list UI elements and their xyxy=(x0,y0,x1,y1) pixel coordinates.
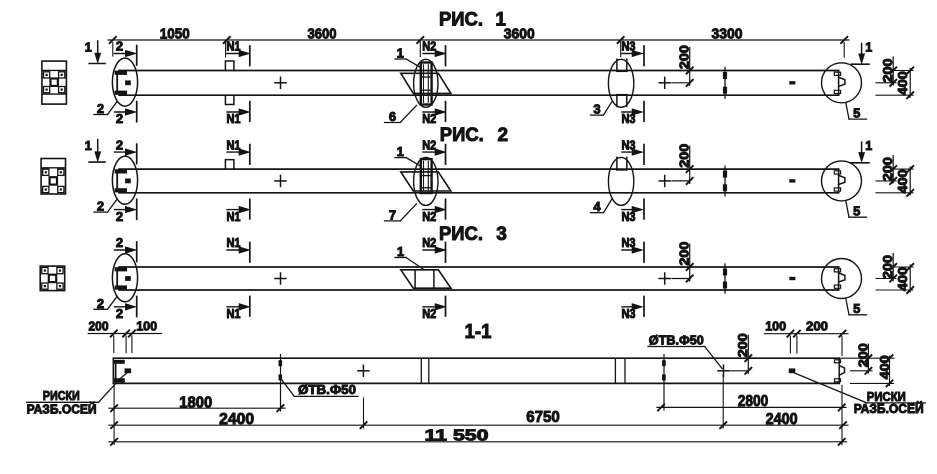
svg-text:2: 2 xyxy=(116,137,123,152)
svg-text:N2: N2 xyxy=(422,112,436,126)
svg-text:200: 200 xyxy=(676,144,691,168)
svg-text:1: 1 xyxy=(85,41,92,55)
svg-text:3300: 3300 xyxy=(712,26,743,42)
svg-text:2400: 2400 xyxy=(219,411,254,428)
svg-text:1: 1 xyxy=(865,41,872,55)
svg-text:2: 2 xyxy=(498,125,509,146)
svg-text:2: 2 xyxy=(97,199,104,214)
svg-text:4: 4 xyxy=(593,199,601,214)
svg-text:2: 2 xyxy=(116,111,123,126)
svg-text:5: 5 xyxy=(853,105,860,120)
svg-text:N3: N3 xyxy=(622,307,636,321)
svg-text:3: 3 xyxy=(593,102,600,117)
svg-text:400: 400 xyxy=(895,169,910,193)
svg-text:N2: N2 xyxy=(422,236,436,250)
svg-text:N1: N1 xyxy=(227,138,241,152)
svg-text:2: 2 xyxy=(116,39,123,54)
svg-text:N3: N3 xyxy=(622,112,636,126)
svg-text:1: 1 xyxy=(865,139,872,153)
svg-text:5: 5 xyxy=(853,203,860,218)
svg-text:2: 2 xyxy=(97,101,104,116)
svg-text:РИС.: РИС. xyxy=(439,9,483,30)
svg-text:400: 400 xyxy=(877,355,892,379)
svg-text:1-1: 1-1 xyxy=(465,321,492,343)
svg-text:N2: N2 xyxy=(422,307,436,321)
svg-text:6750: 6750 xyxy=(526,409,560,426)
svg-text:1: 1 xyxy=(85,139,92,153)
svg-text:200: 200 xyxy=(855,343,870,367)
svg-text:5: 5 xyxy=(853,301,860,316)
svg-text:N2: N2 xyxy=(422,210,436,224)
svg-text:200: 200 xyxy=(735,333,750,357)
svg-text:200: 200 xyxy=(880,59,895,83)
svg-text:3600: 3600 xyxy=(308,26,337,42)
svg-text:1050: 1050 xyxy=(160,26,190,42)
svg-text:200: 200 xyxy=(880,157,895,181)
svg-text:200: 200 xyxy=(806,319,828,334)
svg-text:2: 2 xyxy=(116,235,123,250)
svg-text:200: 200 xyxy=(89,318,109,333)
svg-text:2800: 2800 xyxy=(738,393,769,410)
svg-text:2: 2 xyxy=(97,296,104,311)
svg-text:1: 1 xyxy=(397,144,404,159)
svg-text:N2: N2 xyxy=(422,138,436,152)
svg-text:3: 3 xyxy=(496,224,507,245)
svg-text:1: 1 xyxy=(495,9,506,30)
svg-text:N1: N1 xyxy=(227,236,241,250)
svg-text:200: 200 xyxy=(676,45,691,69)
svg-text:N3: N3 xyxy=(622,210,636,224)
svg-text:N3: N3 xyxy=(622,40,636,54)
svg-text:1: 1 xyxy=(397,244,404,259)
svg-text:ØТВ.Ф50: ØТВ.Ф50 xyxy=(649,333,704,348)
svg-text:100: 100 xyxy=(765,319,786,334)
svg-text:200: 200 xyxy=(880,255,895,279)
svg-text:1: 1 xyxy=(397,46,404,61)
svg-text:РИС.: РИС. xyxy=(440,125,484,146)
svg-text:2: 2 xyxy=(116,209,123,224)
svg-text:РАЗБ.ОСЕЙ: РАЗБ.ОСЕЙ xyxy=(27,402,97,417)
svg-text:N1: N1 xyxy=(227,40,241,54)
svg-text:N1: N1 xyxy=(227,112,241,126)
svg-text:2400: 2400 xyxy=(766,411,798,428)
svg-text:N1: N1 xyxy=(227,210,241,224)
svg-text:N1: N1 xyxy=(227,307,241,321)
svg-text:N3: N3 xyxy=(622,138,636,152)
svg-text:1800: 1800 xyxy=(179,394,212,411)
svg-text:11 550: 11 550 xyxy=(425,427,489,444)
svg-text:N3: N3 xyxy=(622,236,636,250)
svg-text:6: 6 xyxy=(389,109,396,124)
svg-text:400: 400 xyxy=(895,71,910,95)
svg-text:N2: N2 xyxy=(422,40,436,54)
svg-text:ØТВ.Ф50: ØТВ.Ф50 xyxy=(298,382,356,397)
svg-text:100: 100 xyxy=(136,318,157,333)
svg-text:РИС.: РИС. xyxy=(439,224,483,245)
svg-text:200: 200 xyxy=(676,242,691,266)
svg-text:7: 7 xyxy=(389,207,396,222)
svg-text:3600: 3600 xyxy=(504,26,535,42)
svg-text:400: 400 xyxy=(895,267,910,291)
svg-text:2: 2 xyxy=(116,306,123,321)
